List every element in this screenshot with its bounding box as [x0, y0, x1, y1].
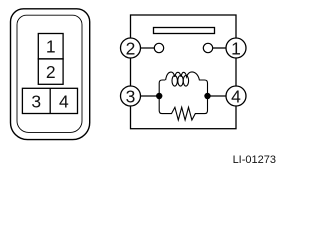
svg-text:4: 4 — [59, 91, 69, 111]
svg-text:3: 3 — [31, 91, 41, 111]
svg-text:3: 3 — [126, 86, 136, 106]
svg-text:4: 4 — [231, 86, 241, 106]
svg-text:2: 2 — [126, 38, 136, 58]
svg-text:2: 2 — [46, 62, 56, 82]
svg-text:1: 1 — [46, 37, 56, 57]
svg-text:1: 1 — [231, 38, 241, 58]
svg-text:LI-01273: LI-01273 — [233, 154, 276, 166]
